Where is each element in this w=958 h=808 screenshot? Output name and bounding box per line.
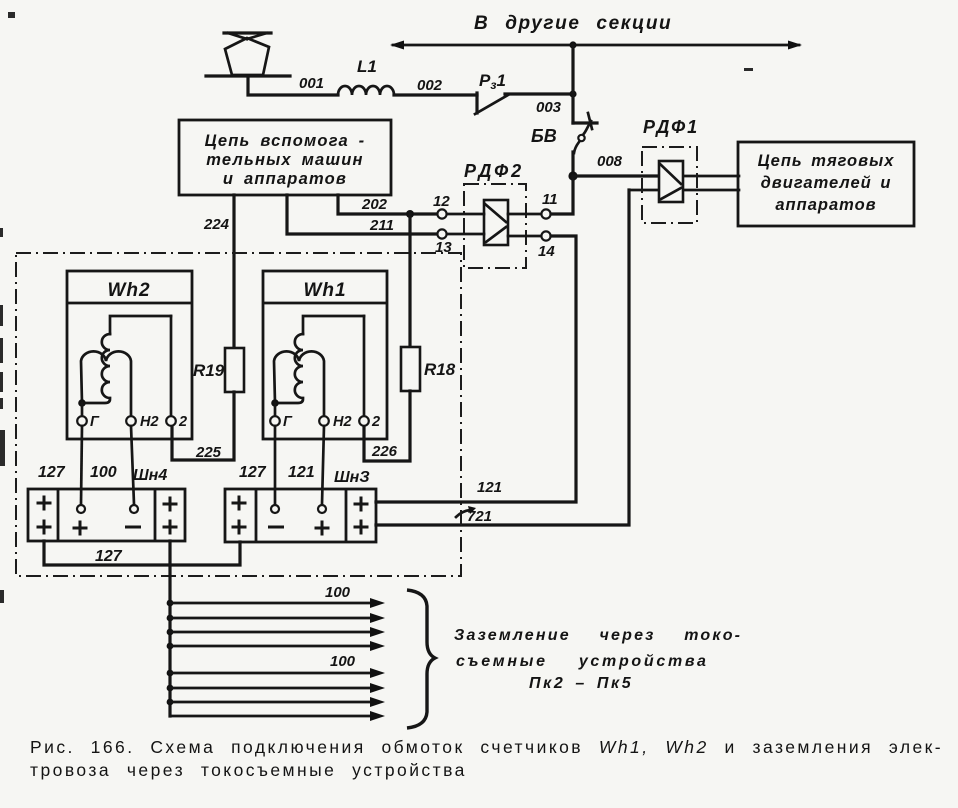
wire: voltage coil to terminal 2 [170,316,173,416]
wire 127: Wh1 Г to ШнЗ [274,426,277,504]
svg-text:121: 121 [477,479,502,496]
svg-text:127: 127 [239,464,267,481]
terminal Н2 of Wh2 [126,416,136,426]
label 721 with pointer [456,506,492,525]
wire 121: Wh1 Н2 to ШнЗ [322,426,324,504]
wire: РДФ2 to 11 [508,213,541,216]
terminal Г of Wh1 [270,416,280,426]
wire 127: Шн4 to ШнЗ bottom link [44,541,240,565]
node: Wh2 coil junction [78,399,86,407]
shunt ШнЗ [225,489,376,542]
terminal 2 of Wh1 [359,416,369,426]
wire 226: R18 to Wh1 terminal 2 [364,391,410,461]
svg-text:ШнЗ: ШнЗ [334,469,370,486]
svg-text:съемные устройства: съемные устройства [456,653,709,670]
breaker БВ [573,113,597,153]
wire: РДФ1 upper output to traction box [682,175,739,178]
meter Wh2 [67,271,192,439]
svg-text:100: 100 [90,464,117,481]
svg-text:Г: Г [90,414,100,430]
svg-text:14: 14 [538,243,555,260]
svg-text:Цепь тяговых: Цепь тяговых [758,152,895,170]
svg-text:и аппаратов: и аппаратов [223,170,347,188]
svg-text:тельных машин: тельных машин [206,151,363,169]
wire: 12 to РДФ2 [447,213,484,216]
svg-text:100: 100 [325,584,351,601]
scan artifacts [0,12,753,603]
wire 003: riser from bus to БВ [571,45,574,123]
svg-text:11: 11 [542,191,558,208]
caption [30,737,943,780]
svg-text:003: 003 [536,99,562,116]
svg-text:Цепь вспомога -: Цепь вспомога - [205,132,366,150]
ground arrows: earthing through collectors [167,598,385,721]
terminal Г of Wh2 [77,416,87,426]
svg-text:R19: R19 [193,361,225,380]
svg-text:002: 002 [417,77,443,94]
meter Wh1 [263,271,387,439]
svg-text:Wh2: Wh2 [107,280,150,301]
note: Заземление через токосъемные устройства Пк2-Пк5 [454,627,742,692]
svg-text:226: 226 [371,443,398,460]
voltage coil Wh1 [303,316,364,334]
svg-text:202: 202 [361,196,388,213]
terminal 13 [437,229,446,238]
svg-text:211: 211 [369,217,394,234]
svg-text:РДФ1: РДФ1 [643,117,699,137]
relay РДФ1 [642,147,697,223]
wire 211: aux box to РДФ2 input 13 [287,195,437,234]
wire 001: pantograph to L1 [248,76,338,95]
wire: 11 to riser [551,176,573,214]
resistor R19 [225,348,244,392]
wire 002: L1 to Рз1 [394,93,477,96]
svg-text:аппаратов: аппаратов [775,196,876,214]
svg-text:224: 224 [203,216,230,233]
svg-text:Н2: Н2 [333,414,352,430]
terminal 2 of Wh2 [166,416,176,426]
wire: РДФ2 to 14 [508,235,541,238]
svg-text:12: 12 [433,193,450,210]
svg-text:127: 127 [38,464,66,481]
wire: top bus "В другие секции" with double arrows [390,41,802,50]
svg-text:100: 100 [330,653,356,670]
svg-text:R18: R18 [424,360,456,379]
current coil Wh2 [81,351,131,417]
svg-text:Шн4: Шн4 [133,467,167,484]
wire: БВ to 008 node [571,152,574,176]
wire: 13 to РДФ2 [447,233,484,236]
node: 008 junction [568,171,577,180]
inductor L1 [338,86,394,95]
terminal 11 [541,209,550,218]
wire: R18 branch riser [408,214,411,347]
node: junction Рз1 output with riser [569,90,576,97]
dash-dot enclosure (locomotive body) [16,253,461,576]
resistor R18 [401,347,420,391]
pantograph [206,33,290,76]
svg-text:В другие секции: В другие секции [474,13,672,34]
wire 008: node to РДФ1 [573,174,660,177]
svg-text:225: 225 [195,444,222,461]
svg-text:Рис. 166. Схема подключения об: Рис. 166. Схема подключения обмоток счет… [30,737,943,757]
terminal 12 [437,209,446,218]
svg-text:БВ: БВ [531,126,557,146]
svg-text:2: 2 [371,414,380,430]
svg-text:двигателей и: двигателей и [761,174,892,192]
svg-text:Wh1: Wh1 [303,280,346,301]
terminal Н2 of Wh1 [319,416,329,426]
wire 100: Wh2 Н2 to Шн4 [131,426,134,504]
node: junction of riser with top bus [569,41,576,48]
wire: voltage coil to terminal 2 [363,316,366,416]
svg-text:Г: Г [283,414,293,430]
svg-text:Рз1: Рз1 [479,71,506,92]
svg-text:008: 008 [597,153,623,170]
svg-text:001: 001 [299,75,324,92]
relay РДФ2 [464,184,526,268]
box: Цепь вспомогательных машин и аппаратов [179,120,391,195]
current coil Wh1 [274,351,324,417]
wire: junction to terminal Г [81,403,84,416]
svg-text:L1: L1 [357,57,377,76]
svg-text:РДФ2: РДФ2 [464,161,524,181]
box: Цепь тяговых двигателей и аппаратов [738,142,914,226]
node: Wh1 coil junction [271,399,279,407]
svg-text:Заземление через токо-: Заземление через токо- [454,627,742,644]
wire 202: aux box to РДФ2 input 12 [338,195,437,214]
wire: РДФ1 lower tap to traction box [629,189,739,192]
svg-text:Н2: Н2 [140,414,159,430]
wire 121: 14 riser down to ШнЗ [376,236,576,502]
svg-text:2: 2 [178,414,187,430]
wire: main earth riser [168,541,171,716]
svg-text:тровоза через токосъемные устр: тровоза через токосъемные устройства [30,760,467,780]
node: junction 202 / R18 branch [406,210,414,218]
switch Рз1 [475,93,573,114]
wire: РДФ1 tap riser down to 721 bus [376,190,629,525]
svg-text:127: 127 [95,548,123,565]
wire 224: aux box to R19 [232,195,235,348]
shunt Шн4 [28,489,185,541]
terminal 14 [541,231,550,240]
wire 127: Wh2 Г to Шн4 [81,426,82,504]
svg-text:Пк2 – Пк5: Пк2 – Пк5 [529,675,633,692]
svg-text:121: 121 [288,464,315,481]
brace [407,590,435,728]
wire 225: R19 to Wh2 terminal 2 [172,392,234,460]
voltage coil Wh2 [110,316,171,334]
wire: junction to terminal Г [274,403,277,416]
